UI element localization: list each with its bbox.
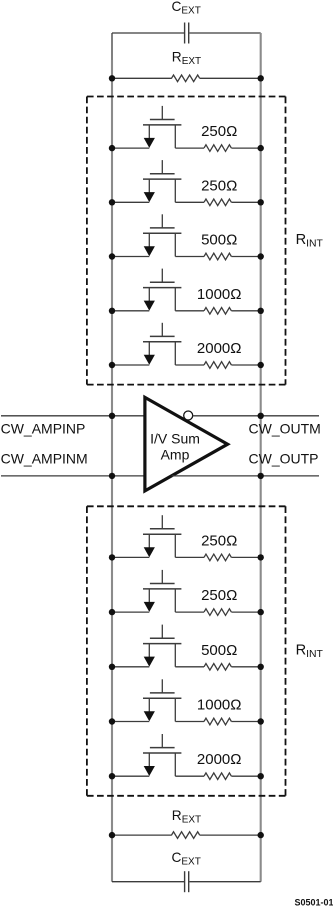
svg-text:CEXT: CEXT (172, 850, 201, 868)
transistor QA3 gate bar (150, 227, 175, 229)
wire row B4 mid (175, 721, 204, 723)
resistor 2000&#937; (row B5) (204, 773, 231, 780)
wire top R_EXT right (200, 77, 261, 79)
transistor QA1 drain drop (174, 125, 176, 148)
transistor QA2 drain drop (174, 179, 176, 202)
junction row A3 right bus (258, 253, 264, 259)
junction row B3 right bus (258, 664, 264, 670)
svg-text:CW_OUTP: CW_OUTP (249, 451, 319, 467)
junction row B4 left bus (109, 718, 115, 724)
transistor QB2 source drop (148, 589, 150, 604)
transistor QA4 source drop (148, 288, 150, 303)
transistor QB5 source arrow (144, 766, 155, 776)
junction row A4 left bus (109, 308, 115, 314)
transistor QB3 drain drop (174, 644, 176, 667)
svg-text:250Ω: 250Ω (201, 587, 237, 604)
junction row A1 left bus (109, 145, 115, 151)
resistor R_EXT (bottom) (172, 832, 200, 839)
wire CW_OUTP (172, 475, 319, 477)
wire row B3 right (231, 666, 260, 668)
svg-text:I/V Sum: I/V Sum (150, 431, 200, 447)
transistor QA5 source drop (148, 342, 150, 357)
wire CW_AMPINM (1, 475, 145, 477)
transistor QA2 source arrow (144, 192, 155, 202)
transistor QB5 gate stub (161, 734, 163, 748)
transistor QA5 channel (143, 341, 181, 343)
junction CW_OUTP right bus (258, 473, 264, 479)
transistor QA2 channel (143, 178, 181, 180)
svg-text:REXT: REXT (172, 49, 201, 67)
transistor QB3 gate bar (150, 637, 175, 639)
transistor QB4 source arrow (144, 711, 155, 721)
wire row A4 mid (175, 310, 204, 312)
transistor QB2 gate stub (161, 570, 163, 584)
wire row B4 right (231, 721, 260, 723)
transistor QB5 channel (143, 752, 181, 754)
transistor QB1 gate stub (161, 515, 163, 529)
capacitor C_EXT (bottom) (185, 871, 189, 892)
resistor 1000&#937; (row B4) (204, 718, 231, 725)
wire row A2 mid (175, 201, 204, 203)
wire row B1 mid (175, 556, 204, 558)
resistor R_EXT (top) (172, 75, 200, 82)
transistor QA1 gate stub (161, 106, 163, 120)
resistor 250&#937; (row A2) (204, 199, 231, 206)
junction row A5 right bus (258, 362, 264, 368)
transistor QB3 source arrow (144, 657, 155, 667)
svg-text:S0501-01: S0501-01 (294, 897, 333, 907)
wire row A3 mid (175, 256, 204, 258)
svg-text:Amp: Amp (161, 446, 190, 462)
wire right bus (260, 33, 262, 882)
transistor QA5 gate stub (161, 323, 163, 337)
resistor 500&#937; (row B3) (204, 664, 231, 671)
svg-text:250Ω: 250Ω (201, 532, 237, 549)
wire left bus (111, 60, 113, 882)
wire row A1 mid (175, 147, 204, 149)
junction row B5 right bus (258, 773, 264, 779)
junction R_EXT bottom right (258, 832, 264, 838)
transistor QA5 gate bar (150, 335, 175, 337)
svg-text:1000Ω: 1000Ω (197, 697, 242, 714)
wire row A5 mid (175, 364, 204, 366)
svg-text:CEXT: CEXT (172, 0, 201, 17)
wire left bus upper stub (111, 33, 113, 62)
svg-text:RINT: RINT (296, 232, 324, 250)
transistor QA3 gate stub (161, 214, 163, 228)
wire top cap left (112, 32, 184, 34)
transistor QB5 gate bar (150, 747, 175, 749)
junction row A4 right bus (258, 308, 264, 314)
transistor QB4 gate bar (150, 692, 175, 694)
transistor QA1 source arrow (144, 138, 155, 148)
wire bottom cap right (189, 881, 260, 883)
junction row A3 left bus (109, 253, 115, 259)
wire row B3 left (112, 666, 149, 668)
wire top R_EXT left (112, 77, 172, 79)
transistor QB3 source drop (148, 644, 150, 659)
transistor QB3 channel (143, 643, 181, 645)
wire row B5 left (112, 775, 149, 777)
transistor QB2 source arrow (144, 602, 155, 612)
op-amp U1 I/V Sum Amp (145, 397, 228, 491)
transistor QA2 source drop (148, 179, 150, 194)
junction row B1 right bus (258, 554, 264, 560)
wire CW_AMPINP (1, 415, 145, 417)
transistor QA4 channel (143, 287, 181, 289)
svg-text:CW_OUTM: CW_OUTM (249, 420, 321, 436)
wire row A2 right (231, 201, 260, 203)
transistor QA4 drain drop (174, 288, 176, 311)
wire CW_OUTM (193, 415, 319, 417)
wire row B2 left (112, 611, 149, 613)
wire row B5 mid (175, 775, 204, 777)
junction row A2 right bus (258, 199, 264, 205)
svg-text:REXT: REXT (172, 808, 201, 826)
transistor QA2 gate stub (161, 160, 163, 174)
transistor QB1 drain drop (174, 534, 176, 557)
dashed box R_INT (top) (87, 97, 286, 385)
wire bottom R_EXT right (200, 834, 261, 836)
transistor QB2 channel (143, 588, 181, 590)
wire row A3 left (112, 256, 149, 258)
transistor QB1 gate bar (150, 528, 175, 530)
svg-text:500Ω: 500Ω (201, 232, 237, 249)
resistor 250&#937; (row B2) (204, 609, 231, 616)
transistor QA4 source arrow (144, 301, 155, 311)
wire row B1 left (112, 556, 149, 558)
capacitor C_EXT (top) (185, 23, 189, 44)
transistor QB4 source drop (148, 698, 150, 713)
transistor QA1 channel (143, 124, 181, 126)
wire row A1 left (112, 147, 149, 149)
transistor QA1 gate bar (150, 119, 175, 121)
svg-text:500Ω: 500Ω (201, 642, 237, 659)
transistor QB4 channel (143, 697, 181, 699)
transistor QB3 gate stub (161, 625, 163, 639)
transistor QA3 drain drop (174, 233, 176, 256)
junction row B4 right bus (258, 718, 264, 724)
junction row B2 left bus (109, 609, 115, 615)
op-amp inverting output bubble (184, 411, 193, 420)
wire row A3 right (231, 256, 260, 258)
junction R_EXT top right (258, 75, 264, 81)
resistor 250&#937; (row B1) (204, 554, 231, 561)
transistor QB1 source drop (148, 534, 150, 549)
svg-text:2000Ω: 2000Ω (197, 751, 242, 768)
junction AMPINM left bus (109, 473, 115, 479)
wire bottom R_EXT left (112, 834, 172, 836)
wire row A1 right (231, 147, 260, 149)
wire row A4 right (231, 310, 260, 312)
junction AMPINP left bus (109, 413, 115, 419)
wire row B5 right (231, 775, 260, 777)
transistor QB4 drain drop (174, 698, 176, 721)
transistor QA3 source drop (148, 233, 150, 248)
junction row A5 left bus (109, 362, 115, 368)
wire row B2 mid (175, 611, 204, 613)
svg-text:250Ω: 250Ω (201, 123, 237, 140)
transistor QA3 source arrow (144, 246, 155, 256)
junction row A1 right bus (258, 145, 264, 151)
svg-text:CW_AMPINM: CW_AMPINM (1, 451, 88, 467)
transistor QA3 channel (143, 232, 181, 234)
wire row A2 left (112, 201, 149, 203)
transistor QA4 gate bar (150, 281, 175, 283)
resistor 250&#937; (row A1) (204, 145, 231, 152)
transistor QA5 drain drop (174, 342, 176, 365)
svg-text:250Ω: 250Ω (201, 177, 237, 194)
svg-text:2000Ω: 2000Ω (197, 340, 242, 357)
transistor QB1 channel (143, 533, 181, 535)
junction row B3 left bus (109, 664, 115, 670)
transistor QB1 source arrow (144, 547, 155, 557)
wire row B3 mid (175, 666, 204, 668)
wire row A5 right (231, 364, 260, 366)
wire row B4 left (112, 721, 149, 723)
wire row B2 right (231, 611, 260, 613)
transistor QB4 gate stub (161, 679, 163, 693)
wire row A5 left (112, 364, 149, 366)
resistor 500&#937; (row A3) (204, 253, 231, 260)
transistor QA4 gate stub (161, 269, 163, 283)
resistor 2000&#937; (row A5) (204, 362, 231, 369)
wire top cap right (189, 32, 260, 34)
resistor 1000&#937; (row A4) (204, 308, 231, 315)
svg-text:1000Ω: 1000Ω (197, 286, 242, 303)
junction row B1 left bus (109, 554, 115, 560)
transistor QB5 source drop (148, 753, 150, 768)
wire row B1 right (231, 556, 260, 558)
transistor QA1 source drop (148, 125, 150, 140)
junction R_EXT bottom left (109, 832, 115, 838)
junction CW_OUTM right bus (258, 413, 264, 419)
junction row B5 left bus (109, 773, 115, 779)
dashed box R_INT (bottom) (87, 506, 286, 796)
svg-text:RINT: RINT (296, 643, 324, 661)
junction row B2 right bus (258, 609, 264, 615)
transistor QB2 drain drop (174, 589, 176, 612)
junction row A2 left bus (109, 199, 115, 205)
junction R_EXT top left (109, 75, 115, 81)
svg-text:CW_AMPINP: CW_AMPINP (1, 421, 86, 437)
transistor QB5 drain drop (174, 753, 176, 776)
transistor QA5 source arrow (144, 355, 155, 365)
transistor QB2 gate bar (150, 583, 175, 585)
wire row A4 left (112, 310, 149, 312)
wire bottom cap left (112, 881, 184, 883)
transistor QA2 gate bar (150, 173, 175, 175)
